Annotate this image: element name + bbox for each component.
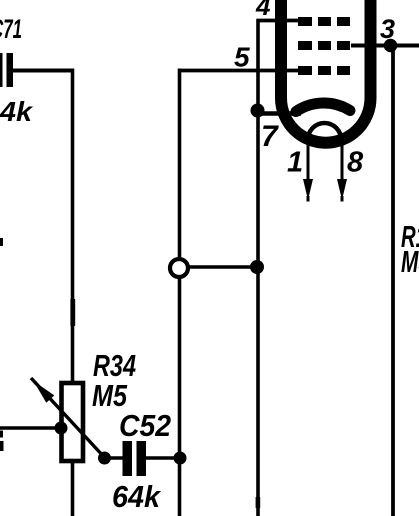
capacitor C71 [0, 14, 33, 127]
wire middle bus (vertical) [178, 69, 182, 516]
terminal circle on middle bus [170, 259, 188, 277]
svg-text:8: 8 [347, 147, 364, 179]
wire C52 to middle bus [146, 456, 181, 460]
svg-text:5: 5 [234, 42, 250, 73]
anode (thick arc, pin 7) [296, 103, 350, 112]
grid g1 (top, pin 4) [298, 17, 350, 26]
stub cut at left edge [0, 238, 4, 451]
wire input from left edge [0, 426, 60, 430]
wire terminal to pin7 bus [188, 265, 258, 269]
junction dot C52 on middle bus [174, 452, 187, 465]
wire left bus upper [71, 69, 75, 384]
node junction on resistor input [55, 422, 68, 435]
wire from C71 to left bus [12, 69, 74, 73]
cathode (small arc) [308, 123, 341, 139]
svg-text:4k: 4k [0, 96, 33, 127]
resistor R34 M5 (potentiometer body) [62, 348, 137, 461]
wire roughness on left bus [70, 299, 75, 326]
junction dot pin7 [251, 104, 265, 118]
wire right bus (vertical) [391, 45, 395, 516]
wire roughness on pin7 bus [256, 497, 261, 508]
junction dot wiper to C52 [98, 452, 111, 465]
svg-text:C71: C71 [0, 14, 22, 44]
svg-text:C52: C52 [119, 408, 171, 443]
junction dot pin3 bus [384, 39, 398, 53]
grid g3 (bottom, pin 5) [298, 66, 350, 75]
wire pin4 horizontal [257, 19, 301, 23]
potentiometer wiper arrow [31, 378, 105, 458]
wire grid-5 horizontal [178, 69, 300, 73]
wire pin3 to right edge [351, 44, 419, 48]
svg-text:M5: M5 [401, 244, 419, 279]
junction dot on pin7 bus [250, 260, 264, 274]
wire wiper dot to C52 [104, 456, 123, 460]
tube U1 envelope [281, 0, 371, 143]
heater lead pin 1 [287, 138, 313, 202]
capacitor C52 [112, 408, 171, 514]
svg-text:1: 1 [287, 147, 303, 179]
heater lead pin 8 [337, 138, 364, 202]
grid g2 (middle, pin 3) [298, 41, 350, 50]
svg-text:4: 4 [255, 0, 271, 21]
wire left bus lower [71, 461, 75, 516]
wire pin7 to anode [257, 111, 301, 116]
svg-text:64k: 64k [112, 479, 162, 514]
wire pin4/pin7 bus (vertical) [256, 19, 260, 516]
svg-text:7: 7 [261, 120, 279, 153]
